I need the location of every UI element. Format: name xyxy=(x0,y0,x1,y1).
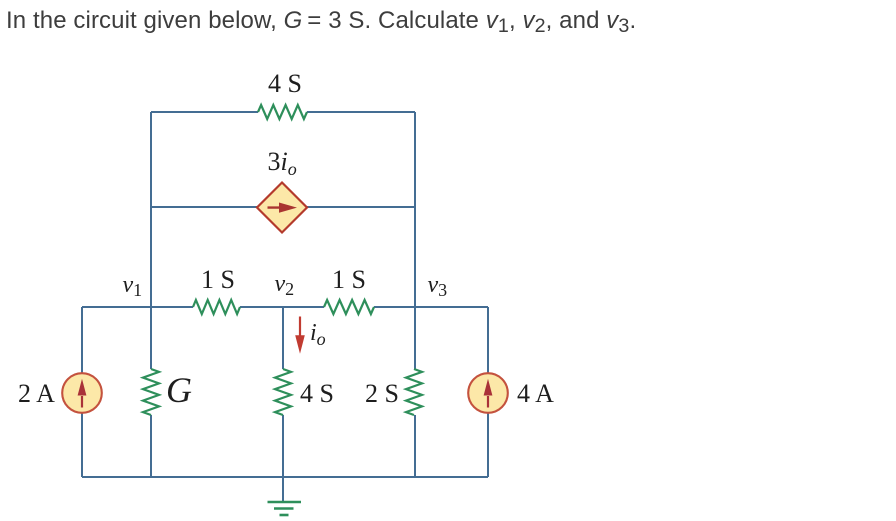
ground bar 2 xyxy=(274,507,294,510)
wire second row left segment xyxy=(151,206,258,208)
wire bottom horizontal xyxy=(82,476,488,478)
title text xyxy=(6,7,636,35)
wire left vertical x=151 (v1) xyxy=(150,112,152,369)
svg-text:4 S: 4 S xyxy=(300,379,334,408)
svg-text:v1: v1 xyxy=(123,272,143,300)
wire left outer vertical x=82 xyxy=(81,307,83,373)
dependent source arrow xyxy=(268,203,298,213)
current source I2 arrow xyxy=(484,379,493,408)
svg-text:1 S: 1 S xyxy=(201,265,235,294)
resistor 2 S vertical xyxy=(406,369,422,415)
ground bar 3 xyxy=(280,514,289,517)
svg-text:3io: 3io xyxy=(268,147,297,179)
resistor 1 S left xyxy=(193,300,240,314)
wire right outer vertical x=488 xyxy=(487,307,489,373)
wire main node row y=307 xyxy=(82,306,193,308)
wire top horizontal right segment xyxy=(307,111,415,113)
wire second row right segment xyxy=(307,206,415,208)
wire right vertical x=415 (v3) xyxy=(414,112,416,369)
ground bar 1 xyxy=(268,501,302,504)
resistor G xyxy=(143,369,159,415)
current arrow io xyxy=(295,317,305,354)
resistor 4 S (top) xyxy=(258,105,307,119)
wire top horizontal left segment xyxy=(151,111,258,113)
svg-text:4 A: 4 A xyxy=(517,379,554,408)
svg-text:4 S: 4 S xyxy=(268,69,302,98)
dependent source U1 diamond 3io xyxy=(257,183,307,233)
resistor 4 S vertical xyxy=(275,369,291,415)
ground stem wire xyxy=(282,477,284,502)
svg-text:G: G xyxy=(166,370,192,410)
svg-text:2 A: 2 A xyxy=(18,379,55,408)
svg-text:io: io xyxy=(310,320,326,349)
wire middle vertical x=283 xyxy=(282,307,284,369)
svg-text:v2: v2 xyxy=(275,271,295,299)
svg-text:2 S: 2 S xyxy=(365,379,399,408)
resistor 1 S right xyxy=(324,300,374,314)
svg-text:v3: v3 xyxy=(428,272,448,300)
current source I2 4 A circle xyxy=(468,373,508,413)
current source I1 2 A circle xyxy=(62,373,102,413)
svg-text:1 S: 1 S xyxy=(332,265,366,294)
current source I1 arrow xyxy=(78,379,87,408)
